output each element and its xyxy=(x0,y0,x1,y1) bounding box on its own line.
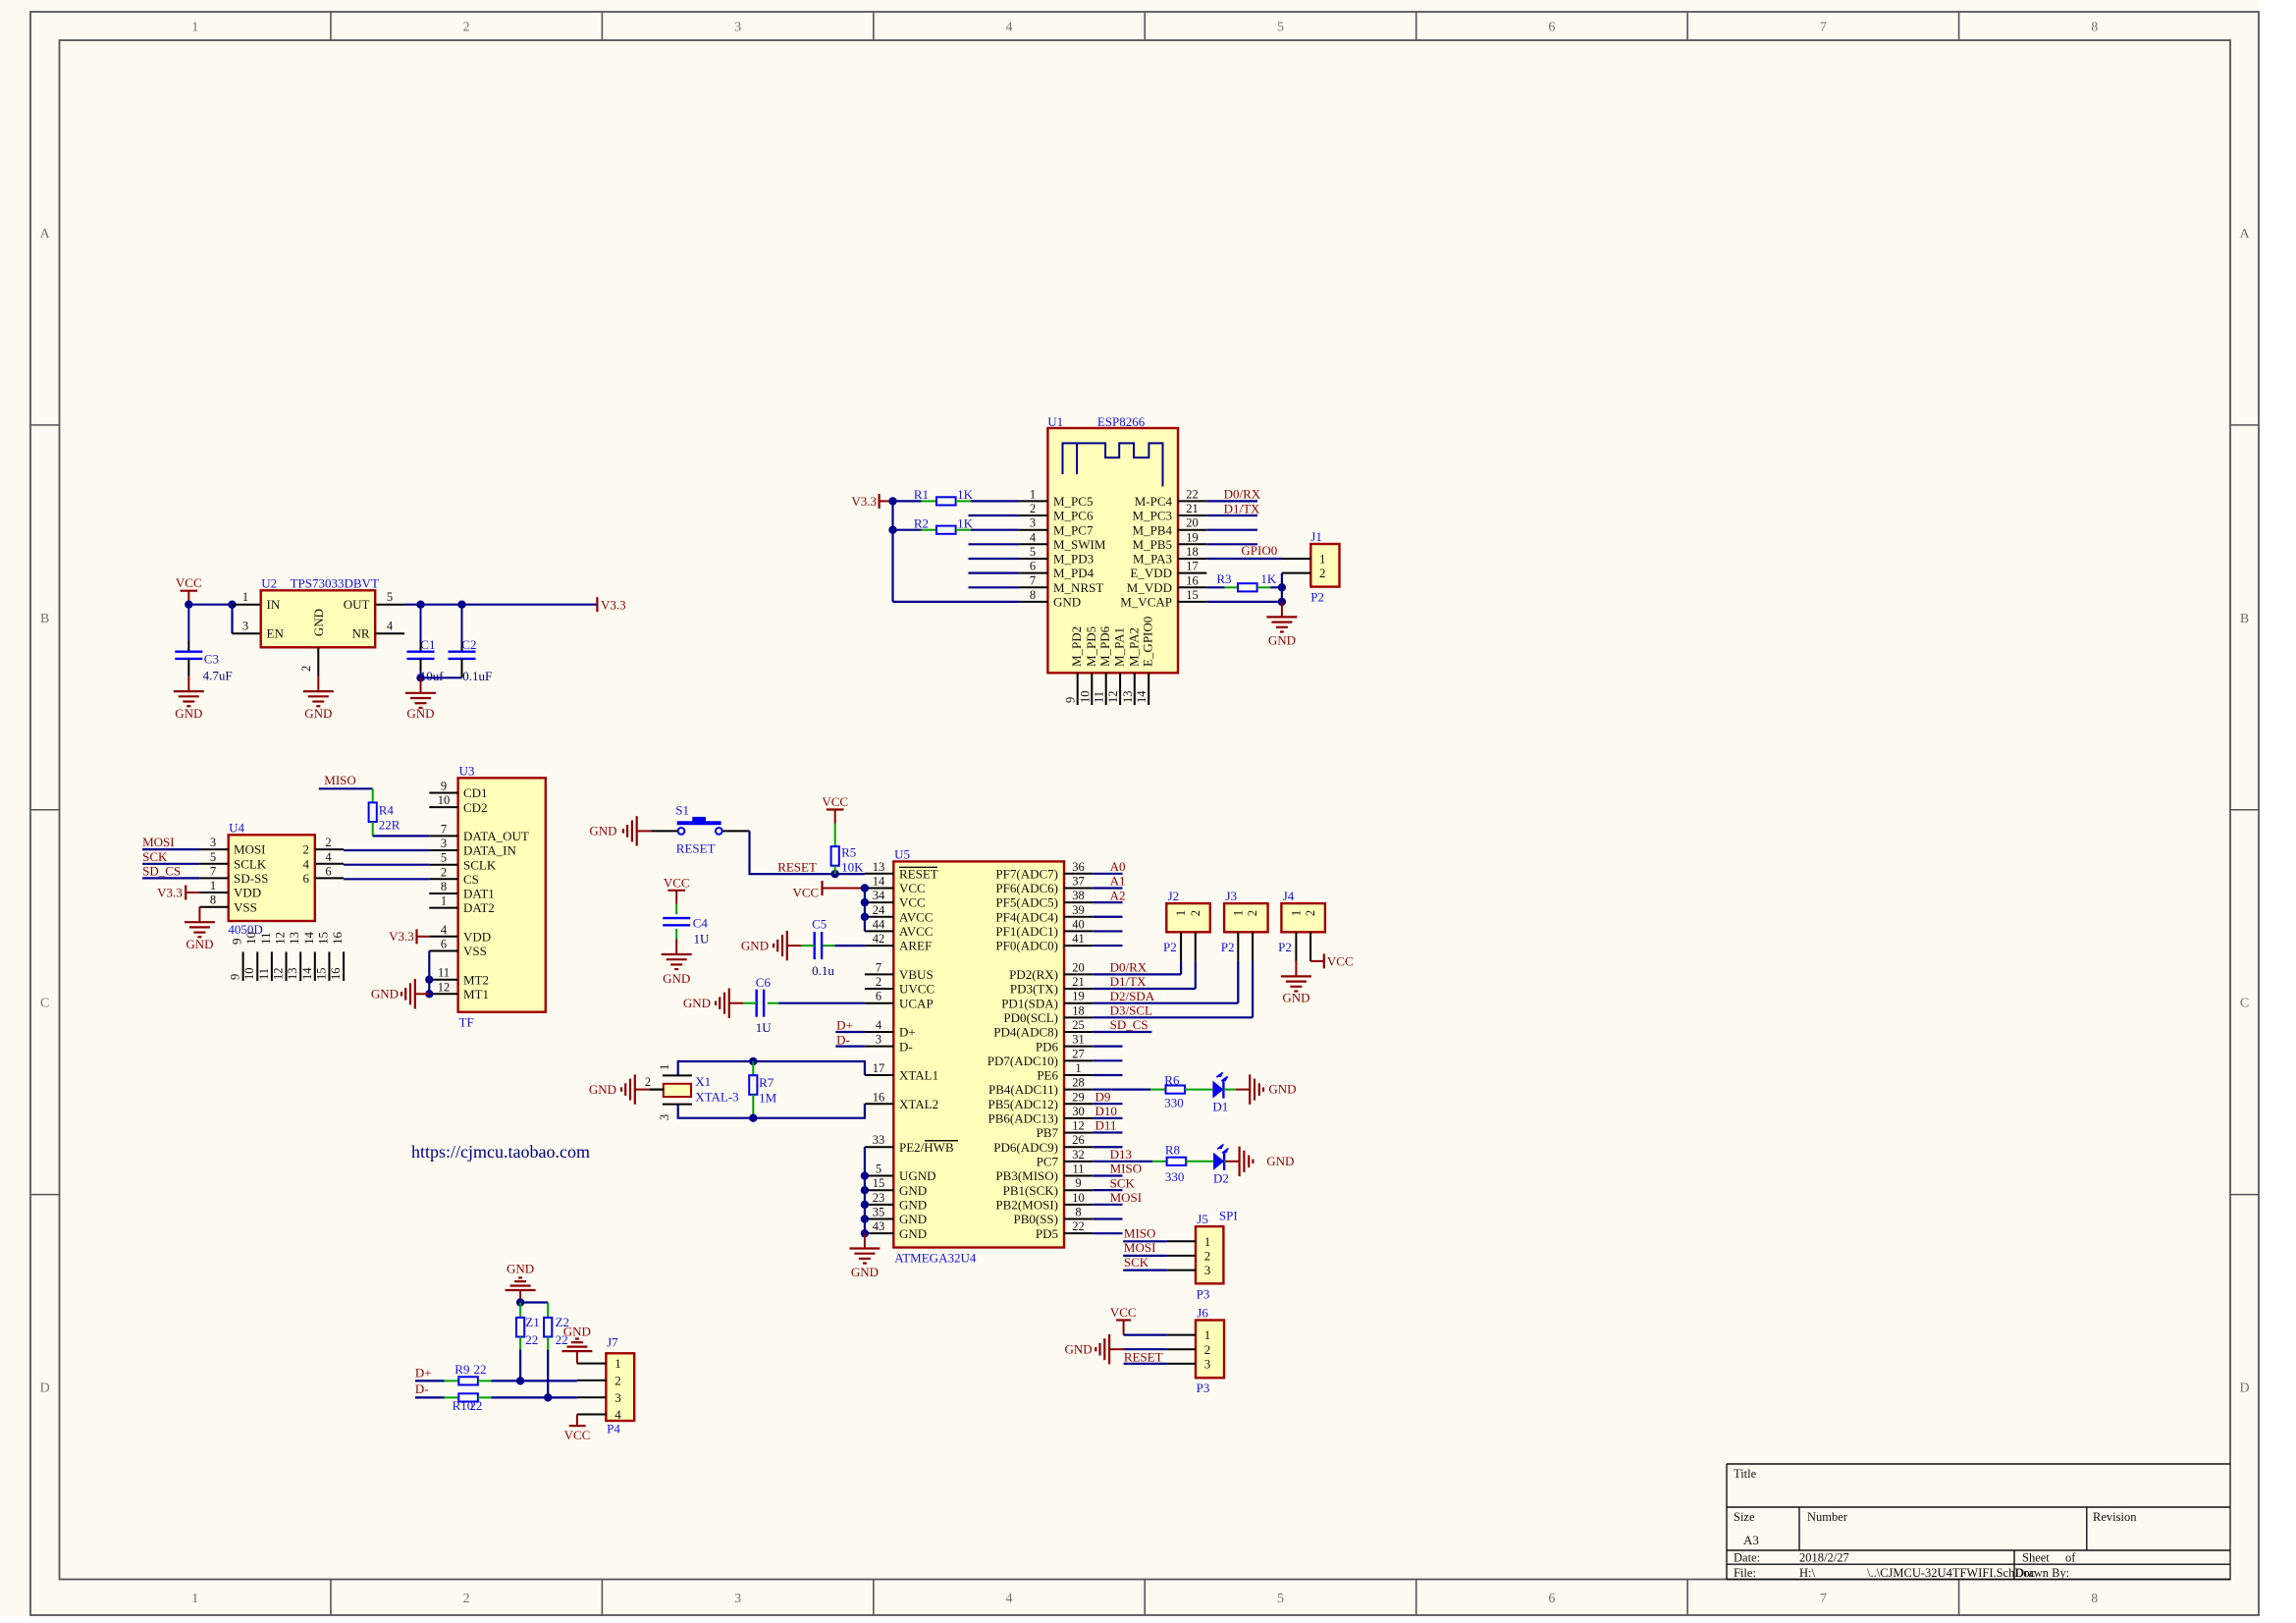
ground symbol at C1/C2 xyxy=(405,677,436,721)
svg-text:4: 4 xyxy=(876,1018,882,1032)
wire A0 + label xyxy=(1093,859,1125,874)
svg-text:E_GPIO0: E_GPIO0 xyxy=(1141,617,1155,667)
svg-text:11: 11 xyxy=(438,966,450,980)
wire U1 pin21 + net label D1/TX xyxy=(1206,501,1260,515)
wire stub (U1 left) xyxy=(969,571,1020,573)
junction VCC pin34 xyxy=(861,898,869,906)
svg-text:D2/SDA: D2/SDA xyxy=(1110,989,1155,1003)
ground symbol at D2 xyxy=(1225,1147,1294,1176)
svg-text:VCC: VCC xyxy=(1110,1305,1137,1320)
svg-text:Title: Title xyxy=(1734,1467,1757,1481)
junction R2 branch xyxy=(888,526,896,534)
svg-text:1K: 1K xyxy=(957,487,974,502)
svg-text:2: 2 xyxy=(1189,910,1202,916)
svg-text:P2: P2 xyxy=(1278,940,1292,954)
svg-text:ATMEGA32U4: ATMEGA32U4 xyxy=(894,1251,977,1266)
U1 left pin 8 GND xyxy=(1019,588,1081,610)
wire SCK (U5) xyxy=(1093,1189,1122,1191)
svg-text:10: 10 xyxy=(243,932,258,945)
ground symbol at U5 xyxy=(849,1233,880,1279)
ground symbol at C4 xyxy=(662,940,692,987)
svg-text:File:: File: xyxy=(1734,1566,1756,1580)
wire D11 + label xyxy=(1093,1118,1122,1133)
svg-text:PF6(ADC6): PF6(ADC6) xyxy=(995,881,1058,895)
wire stub (U5 right) xyxy=(1093,1046,1122,1048)
svg-text:VDD: VDD xyxy=(463,929,491,944)
U1 right pin 19 M_PB5 xyxy=(1133,530,1207,552)
svg-text:Size: Size xyxy=(1734,1510,1755,1524)
junction at C1 xyxy=(416,601,424,609)
U5 right pin 30 PB6(ADC13) xyxy=(988,1105,1093,1126)
svg-text:3: 3 xyxy=(1204,1357,1211,1372)
U3 pin 8 DAT1 xyxy=(429,880,494,901)
wire stub (U5 right) xyxy=(1093,945,1122,947)
ground symbol at U2 pin2 xyxy=(303,676,334,721)
svg-text:1K: 1K xyxy=(957,516,974,531)
U1 bottom pin 13 M_PA2 xyxy=(1121,627,1142,705)
svg-text:4: 4 xyxy=(325,850,332,864)
svg-text:1: 1 xyxy=(658,1064,671,1070)
wire stub (U5 right) xyxy=(1093,1217,1122,1219)
LED D2 xyxy=(1213,1144,1229,1186)
svg-text:M_PD2: M_PD2 xyxy=(1069,626,1084,667)
svg-text:GND: GND xyxy=(741,938,769,952)
wire UCAP to C6 xyxy=(778,1002,865,1004)
svg-text:PD6: PD6 xyxy=(1036,1039,1059,1054)
svg-text:TPS73033DBVT: TPS73033DBVT xyxy=(291,576,379,591)
svg-text:M_PC7: M_PC7 xyxy=(1053,522,1094,537)
svg-text:UCAP: UCAP xyxy=(899,996,934,1010)
svg-text:MT2: MT2 xyxy=(463,972,489,987)
TF card socket U3 body xyxy=(458,763,546,1029)
wire pin28 to R6 xyxy=(1093,1088,1150,1090)
svg-text:SCLK: SCLK xyxy=(463,857,497,872)
U5 left pin 15 GND xyxy=(865,1176,927,1198)
wire GND to Z2 column xyxy=(520,1301,548,1303)
U3 pin 9 CD1 xyxy=(429,780,487,801)
U4 left pin 1 VDD xyxy=(199,879,261,900)
net label RESET (J6) xyxy=(1124,1349,1163,1364)
svg-text:GND: GND xyxy=(851,1265,879,1279)
svg-text:2: 2 xyxy=(463,21,470,35)
svg-text:M_PA2: M_PA2 xyxy=(1126,627,1141,667)
svg-text:10: 10 xyxy=(242,968,256,981)
junction VCC pin24 xyxy=(861,913,869,921)
svg-text:PD0(SCL): PD0(SCL) xyxy=(1003,1010,1058,1025)
U3 pin 11 MT2 xyxy=(429,966,489,988)
svg-text:18: 18 xyxy=(1186,545,1199,559)
svg-text:12: 12 xyxy=(1106,691,1120,704)
svg-text:SCK: SCK xyxy=(1110,1175,1136,1190)
svg-text:P3: P3 xyxy=(1197,1380,1210,1395)
svg-text:GND: GND xyxy=(899,1183,927,1198)
svg-text:U5: U5 xyxy=(894,846,910,861)
ground symbol at J1 xyxy=(1266,602,1297,648)
connector J3 header xyxy=(1221,889,1268,954)
U5 left pin 34 VCC xyxy=(865,889,926,910)
svg-text:5: 5 xyxy=(387,590,393,604)
svg-text:GND: GND xyxy=(563,1325,591,1339)
svg-text:VCC: VCC xyxy=(822,794,848,809)
ground symbol at U3 MT1 xyxy=(371,979,429,1008)
svg-text:8: 8 xyxy=(1075,1206,1081,1219)
svg-text:GND: GND xyxy=(589,824,616,839)
resistor R9 22 xyxy=(445,1362,492,1384)
junction ground rail xyxy=(861,1229,869,1237)
svg-text:C6: C6 xyxy=(756,975,772,990)
J5 wire MOSI + label xyxy=(1123,1240,1196,1256)
J3 pin2 stub xyxy=(1252,932,1254,961)
svg-text:IN: IN xyxy=(267,597,281,612)
regulator U2 TPS73033DBVT xyxy=(261,576,379,648)
junction Z1/D+ xyxy=(516,1377,524,1384)
svg-text:0.1u: 0.1u xyxy=(812,963,834,978)
svg-text:PF5(ADC5): PF5(ADC5) xyxy=(995,895,1058,910)
wire R10 to J7.3 xyxy=(492,1396,577,1398)
svg-text:J3: J3 xyxy=(1225,889,1237,903)
svg-text:VSS: VSS xyxy=(234,899,257,914)
svg-text:4: 4 xyxy=(441,923,448,937)
U3 pin 12 MT1 xyxy=(429,980,489,1001)
U4 left pin 8 VSS xyxy=(199,893,256,915)
wire XTAL2 loop xyxy=(678,1104,865,1118)
svg-text:1: 1 xyxy=(1204,1327,1211,1342)
U5 left pin 4 D+ xyxy=(865,1018,916,1040)
U5 right pin 27 PD7(ADC10) xyxy=(988,1047,1094,1068)
svg-text:M_VDD: M_VDD xyxy=(1127,580,1172,595)
ground symbol at S1 xyxy=(589,816,651,845)
U3 pin 7 DATA_OUT xyxy=(429,822,529,843)
svg-text:41: 41 xyxy=(1072,932,1085,946)
svg-text:3: 3 xyxy=(734,21,741,35)
svg-text:MISO: MISO xyxy=(1124,1226,1156,1241)
svg-text:GND: GND xyxy=(1266,1154,1294,1168)
svg-text:D11: D11 xyxy=(1095,1118,1117,1133)
svg-text:GND: GND xyxy=(589,1082,616,1097)
svg-text:18: 18 xyxy=(1072,1003,1085,1017)
svg-text:GND: GND xyxy=(186,937,213,951)
svg-text:1: 1 xyxy=(614,1356,621,1371)
svg-text:DATA_OUT: DATA_OUT xyxy=(463,829,529,843)
U2 pin 3 stub xyxy=(233,620,261,634)
junction V3.3/R1 xyxy=(888,497,896,505)
svg-text:H:\: H:\ xyxy=(1799,1566,1816,1580)
wire U3 VSS/MT chain xyxy=(428,951,430,995)
net label MISO + wire xyxy=(319,773,373,788)
svg-text:ESP8266: ESP8266 xyxy=(1097,414,1146,429)
svg-text:A3: A3 xyxy=(1743,1533,1759,1547)
svg-text:4: 4 xyxy=(303,856,310,871)
svg-text:1: 1 xyxy=(1030,487,1036,501)
J5 wire SCK + label xyxy=(1123,1255,1196,1271)
svg-text:PF4(ADC4): PF4(ADC4) xyxy=(995,909,1058,924)
svg-text:GND: GND xyxy=(899,1197,927,1212)
U5 left pin 35 GND xyxy=(865,1206,927,1227)
svg-text:3: 3 xyxy=(1030,516,1036,530)
wire U1 pin16 to R3 xyxy=(1206,586,1224,588)
svg-text:22: 22 xyxy=(525,1332,538,1347)
svg-text:11: 11 xyxy=(258,932,273,945)
wire MISO (U5) xyxy=(1093,1174,1122,1176)
U4 right pin 4 xyxy=(303,850,345,872)
svg-text:33: 33 xyxy=(873,1133,885,1147)
svg-text:MOSI: MOSI xyxy=(1110,1190,1143,1205)
wire U1 pin22 + net label D0/RX xyxy=(1206,486,1260,501)
U5 left pin 2 UVCC xyxy=(865,975,934,997)
U5 left pin 14 VCC xyxy=(865,874,926,895)
U5 right pin 22 PD5 xyxy=(1036,1219,1093,1241)
resistor R2 1K xyxy=(893,516,1020,534)
svg-text:2: 2 xyxy=(1204,1249,1211,1264)
svg-text:3: 3 xyxy=(1204,1263,1211,1277)
svg-text:13: 13 xyxy=(286,968,299,981)
svg-text:2: 2 xyxy=(463,1592,470,1606)
svg-text:MT1: MT1 xyxy=(463,987,489,1001)
U1 left pin 7 M_NRST xyxy=(1019,573,1103,595)
svg-text:12: 12 xyxy=(273,932,288,945)
ground symbol at U4 VSS xyxy=(185,907,215,951)
svg-text:37: 37 xyxy=(1072,874,1085,888)
svg-text:11: 11 xyxy=(1072,1163,1084,1176)
svg-text:17: 17 xyxy=(1186,560,1199,573)
U1 right pin 15 M_VCAP xyxy=(1120,588,1206,610)
wire stub (U1 left) xyxy=(969,543,1020,545)
junction VCC pin14 xyxy=(861,884,869,892)
svg-text:10: 10 xyxy=(1072,1191,1085,1205)
svg-text:3: 3 xyxy=(734,1592,741,1606)
svg-text:Sheet: Sheet xyxy=(2022,1551,2050,1565)
svg-text:VCC: VCC xyxy=(1327,953,1354,968)
U4 bottom pins 9-16 xyxy=(229,932,345,982)
svg-text:Revision: Revision xyxy=(2093,1510,2137,1524)
svg-text:6: 6 xyxy=(441,938,447,951)
capacitor C3 xyxy=(175,605,232,683)
svg-text:M-PC4: M-PC4 xyxy=(1135,494,1173,509)
svg-text:SD-SS: SD-SS xyxy=(234,871,268,886)
svg-text:VCC: VCC xyxy=(564,1428,591,1442)
svg-text:PE6: PE6 xyxy=(1037,1068,1058,1083)
svg-text:10: 10 xyxy=(1078,691,1092,704)
svg-text:D9: D9 xyxy=(1095,1089,1111,1104)
wire R4 to U3 DATA_OUT xyxy=(373,835,430,837)
net label MOSI + wire xyxy=(142,835,199,849)
module U1 ESP8266 body xyxy=(1047,414,1178,673)
svg-text:DAT2: DAT2 xyxy=(463,900,495,915)
svg-text:V3.3: V3.3 xyxy=(601,597,626,612)
U1 left pin 1 M_PC5 xyxy=(1019,487,1093,509)
svg-text:PB1(SCK): PB1(SCK) xyxy=(1003,1183,1058,1198)
svg-text:3: 3 xyxy=(242,620,248,633)
svg-text:43: 43 xyxy=(873,1219,885,1233)
svg-text:9: 9 xyxy=(229,974,242,980)
svg-text:40: 40 xyxy=(1072,917,1085,931)
svg-text:SPI: SPI xyxy=(1219,1208,1238,1222)
U5 right pin 36 PF7(ADC7) xyxy=(995,860,1093,882)
U2 pin 5 stub xyxy=(375,590,404,605)
U1 right pin 18 M_PA3 xyxy=(1133,545,1206,567)
wire stub (U5 right) xyxy=(1093,930,1122,932)
U4 left pin 3 MOSI xyxy=(199,836,265,857)
svg-text:22: 22 xyxy=(1186,487,1199,501)
svg-text:34: 34 xyxy=(873,889,885,902)
wire EN branch down xyxy=(231,605,233,634)
U5 right pin 9 PB1(SCK) xyxy=(1003,1176,1094,1198)
svg-text:J4: J4 xyxy=(1283,889,1295,903)
U4 right pin 6 xyxy=(303,864,345,886)
svg-text:1: 1 xyxy=(1075,1061,1081,1075)
svg-text:9: 9 xyxy=(230,939,244,946)
svg-text:U1: U1 xyxy=(1047,414,1063,429)
svg-text:SCLK: SCLK xyxy=(234,856,267,871)
J4 pin1 stub xyxy=(1295,932,1297,961)
svg-text:PD7(ADC10): PD7(ADC10) xyxy=(988,1054,1058,1068)
svg-text:6: 6 xyxy=(1030,560,1036,573)
ground symbol at C5 xyxy=(741,931,801,960)
MCU U5 ATMEGA32U4 body xyxy=(893,846,1064,1265)
net label D13 xyxy=(1110,1147,1132,1162)
U5 left pin 17 XTAL1 xyxy=(865,1061,938,1083)
vertical wire V3.3 rail xyxy=(891,501,893,602)
U5 right pin 39 PF4(ADC4) xyxy=(995,903,1093,925)
svg-text:38: 38 xyxy=(1072,889,1085,902)
junction RESET/R5 xyxy=(831,870,839,878)
svg-text:32: 32 xyxy=(1072,1148,1085,1162)
svg-text:C3: C3 xyxy=(204,652,219,667)
wire U4 VSS down xyxy=(198,906,200,908)
svg-text:27: 27 xyxy=(1072,1047,1085,1060)
svg-text:OUT: OUT xyxy=(344,597,370,612)
U1 left pin 2 M_PC6 xyxy=(1019,502,1094,523)
svg-text:M_SWIM: M_SWIM xyxy=(1053,537,1106,552)
U5 left pin 44 AVCC xyxy=(865,917,934,939)
svg-text:17: 17 xyxy=(873,1061,885,1075)
svg-text:1: 1 xyxy=(191,21,198,35)
svg-text:U4: U4 xyxy=(229,820,244,835)
U5 ground rail vertical xyxy=(864,1176,866,1234)
svg-text:PB3(MISO): PB3(MISO) xyxy=(995,1168,1058,1183)
J6 pin3 wire xyxy=(1124,1363,1196,1365)
svg-text:D: D xyxy=(2239,1381,2249,1396)
resistor R3 1K xyxy=(1216,571,1282,591)
svg-text:8: 8 xyxy=(2091,21,2098,35)
junction MT1 xyxy=(425,990,433,998)
svg-text:M_PC3: M_PC3 xyxy=(1133,509,1172,523)
svg-text:J1: J1 xyxy=(1310,529,1322,544)
wire stub (U5 right) xyxy=(1093,1232,1122,1234)
svg-text:19: 19 xyxy=(1072,990,1085,1003)
svg-text:D0/RX: D0/RX xyxy=(1110,960,1148,975)
J1 pin1 stub xyxy=(1282,558,1310,560)
U3 pin 3 DATA_IN xyxy=(429,837,516,858)
svg-text:Z1: Z1 xyxy=(525,1315,539,1329)
net label MISO (U5) xyxy=(1110,1162,1143,1176)
resistor R1 1K xyxy=(893,487,1020,505)
resistor R8 330 xyxy=(1152,1142,1213,1184)
svg-text:9: 9 xyxy=(441,780,447,793)
svg-text:21: 21 xyxy=(1186,502,1199,515)
junction R3/J1 xyxy=(1278,583,1286,591)
svg-text:AVCC: AVCC xyxy=(899,924,933,939)
svg-text:SD_CS: SD_CS xyxy=(1110,1017,1148,1032)
svg-text:D0/RX: D0/RX xyxy=(1224,486,1261,501)
ground symbol above Z1 xyxy=(506,1261,536,1302)
svg-text:R7: R7 xyxy=(759,1075,774,1090)
U5 right pin 41 PF0(ADC0) xyxy=(995,932,1093,953)
LED D1 xyxy=(1212,1072,1235,1114)
svg-text:8: 8 xyxy=(210,893,216,907)
svg-text:GND: GND xyxy=(1282,990,1309,1004)
svg-text:PF7(ADC7): PF7(ADC7) xyxy=(995,866,1058,881)
svg-text:PB0(SS): PB0(SS) xyxy=(1013,1212,1058,1226)
junction R7 top xyxy=(749,1057,757,1065)
U1 bottom pin 12 M_PA1 xyxy=(1106,627,1127,705)
svg-text:D10: D10 xyxy=(1095,1104,1117,1118)
svg-text:D13: D13 xyxy=(1110,1147,1132,1162)
svg-text:10K: 10K xyxy=(841,860,864,875)
svg-text:M_PA3: M_PA3 xyxy=(1133,552,1172,567)
svg-text:UGND: UGND xyxy=(899,1168,936,1183)
U4 left pin 7 SD-SS xyxy=(199,864,268,886)
wire AREF to C5 xyxy=(834,945,865,947)
U5 right pin 32 PC7 xyxy=(1037,1148,1094,1169)
svg-text:S1: S1 xyxy=(675,803,689,818)
ground symbol at X1 pin2 xyxy=(589,1074,649,1104)
resistor Z1 22 xyxy=(516,1303,540,1381)
J6 pin1 wire xyxy=(1124,1333,1196,1335)
svg-text:8: 8 xyxy=(1030,588,1036,602)
wire PE2 to ground rail xyxy=(864,1147,866,1175)
wire C2 to C1 bottom xyxy=(421,676,462,678)
svg-text:4: 4 xyxy=(387,620,394,633)
U5 right pin 10 PB2(MOSI) xyxy=(995,1191,1093,1213)
U3 pin 10 CD2 xyxy=(429,793,487,815)
wire J1 pin2 down xyxy=(1281,573,1283,602)
svg-text:2: 2 xyxy=(299,666,313,672)
svg-text:M_PB4: M_PB4 xyxy=(1133,522,1173,537)
svg-text:12: 12 xyxy=(1072,1119,1085,1133)
svg-text:2: 2 xyxy=(1030,502,1036,515)
svg-text:42: 42 xyxy=(873,932,885,946)
capacitor C2 xyxy=(449,605,493,683)
J7 pin2 stub xyxy=(577,1380,607,1381)
svg-text:22R: 22R xyxy=(379,818,400,833)
resistor R5 10K xyxy=(831,824,865,875)
svg-text:GND: GND xyxy=(1053,595,1081,610)
svg-text:2: 2 xyxy=(1319,566,1326,580)
svg-text:1K: 1K xyxy=(1260,571,1277,586)
U5 left pin 23 GND xyxy=(865,1191,927,1213)
U1 left pin 6 M_PD4 xyxy=(1019,560,1095,581)
svg-text:VCC: VCC xyxy=(176,575,202,590)
wire MOSI (U5) xyxy=(1093,1204,1122,1206)
svg-text:2: 2 xyxy=(876,975,881,989)
svg-text:A2: A2 xyxy=(1110,888,1126,902)
svg-text:P4: P4 xyxy=(607,1422,620,1436)
power port VCC at J4 pin2 xyxy=(1310,953,1354,968)
svg-text:330: 330 xyxy=(1164,1096,1184,1110)
U5 left pin 42 AREF xyxy=(865,932,932,953)
U5 right pin 31 PD6 xyxy=(1036,1033,1093,1055)
svg-text:PB6(ADC13): PB6(ADC13) xyxy=(988,1111,1058,1126)
svg-text:GND: GND xyxy=(507,1261,534,1275)
U1 left pin 4 M_SWIM xyxy=(1019,530,1106,552)
svg-text:35: 35 xyxy=(873,1206,885,1219)
svg-text:0.1uF: 0.1uF xyxy=(462,669,492,683)
svg-text:D+: D+ xyxy=(899,1025,916,1040)
svg-text:EN: EN xyxy=(267,626,285,641)
svg-text:1U: 1U xyxy=(756,1020,773,1035)
title block grid xyxy=(1727,1464,2230,1580)
